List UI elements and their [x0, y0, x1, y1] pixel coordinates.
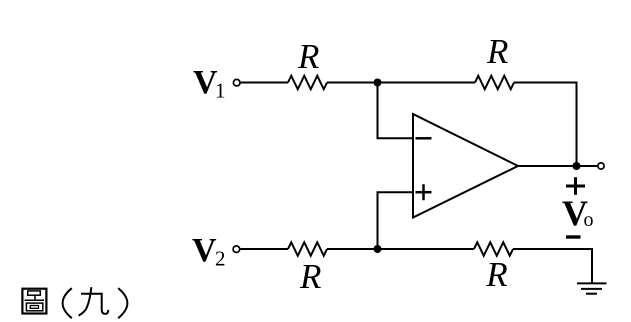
- svg-text:V: V: [192, 232, 217, 269]
- svg-text:1: 1: [215, 79, 226, 103]
- svg-text:R: R: [297, 37, 319, 76]
- svg-text:R: R: [299, 257, 321, 296]
- svg-text:R: R: [485, 255, 507, 294]
- svg-text:R: R: [486, 32, 508, 71]
- svg-text:2: 2: [215, 247, 226, 271]
- svg-text:o: o: [584, 209, 594, 231]
